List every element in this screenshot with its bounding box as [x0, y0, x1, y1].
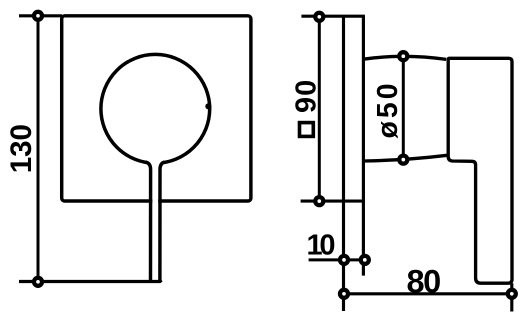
svg-text:80: 80	[407, 263, 441, 299]
svg-text:130: 130	[5, 124, 38, 173]
svg-text:ø50: ø50	[372, 80, 404, 138]
svg-text:90: 90	[291, 79, 323, 113]
svg-text:10: 10	[307, 230, 335, 262]
